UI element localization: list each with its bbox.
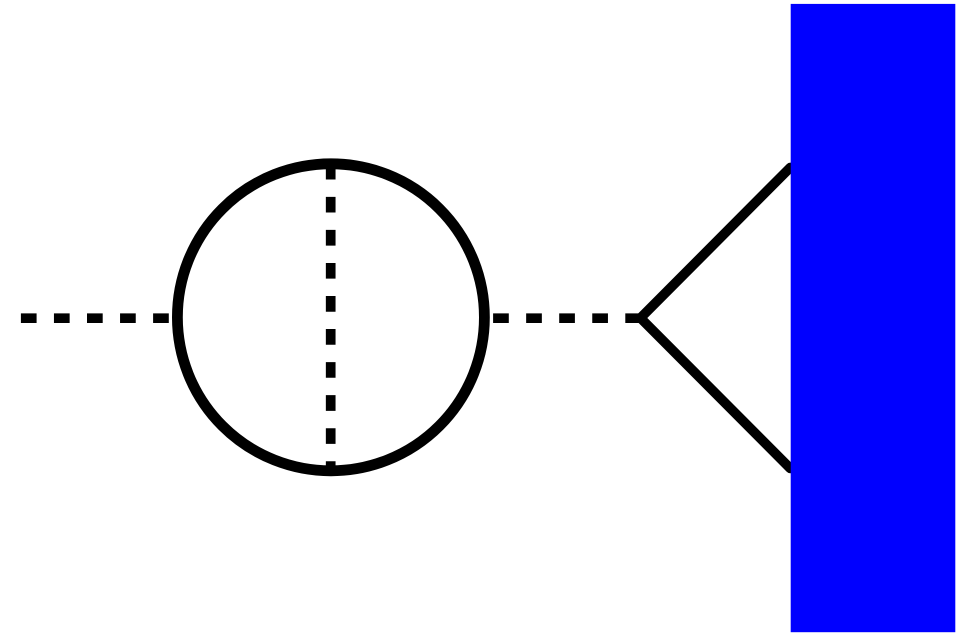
wire: vertical dashed cut line through loop: [326, 164, 336, 471]
wire: right internal dashed propagator: [484, 313, 641, 323]
loop circle (bubble): [177, 164, 484, 471]
blob: blue rectangle (external field): [791, 4, 956, 632]
wire: left external dashed propagator: [21, 313, 178, 323]
node A: vertex with two solid lines to blob: [641, 168, 791, 469]
